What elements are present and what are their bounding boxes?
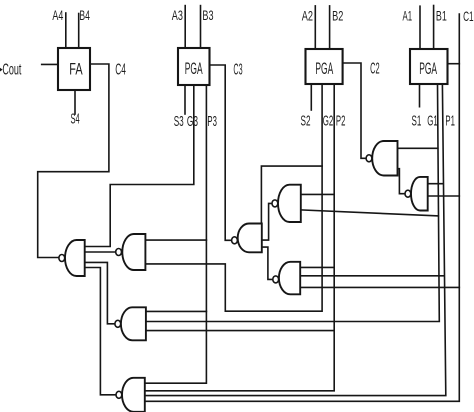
svg-text:P2: P2	[336, 112, 346, 129]
svg-text:PGA: PGA	[315, 59, 333, 78]
svg-text:G2: G2	[323, 112, 334, 129]
svg-text:PGA: PGA	[185, 59, 203, 78]
svg-text:P3: P3	[207, 113, 217, 130]
svg-text:G1: G1	[427, 113, 438, 130]
svg-text:Cout: Cout	[2, 62, 21, 79]
svg-text:C1: C1	[463, 8, 474, 24]
svg-text:C2: C2	[370, 61, 380, 78]
svg-text:C4: C4	[115, 61, 126, 78]
svg-text:S4: S4	[71, 111, 80, 128]
svg-text:P1: P1	[445, 113, 455, 130]
svg-text:B3: B3	[202, 7, 213, 23]
svg-text:C3: C3	[233, 61, 242, 78]
svg-text:S2: S2	[301, 112, 311, 129]
svg-text:B4: B4	[79, 7, 90, 23]
svg-text:B2: B2	[332, 7, 343, 23]
svg-text:PGA: PGA	[419, 59, 437, 78]
svg-text:A2: A2	[302, 7, 313, 23]
svg-text:S1: S1	[412, 113, 422, 130]
svg-text:A1: A1	[403, 7, 413, 23]
svg-text:A3: A3	[172, 7, 183, 23]
svg-text:G3: G3	[187, 113, 198, 130]
svg-text:B1: B1	[436, 7, 447, 23]
svg-text:A4: A4	[52, 7, 63, 23]
svg-text:S3: S3	[174, 113, 184, 130]
svg-text:FA: FA	[69, 60, 83, 79]
